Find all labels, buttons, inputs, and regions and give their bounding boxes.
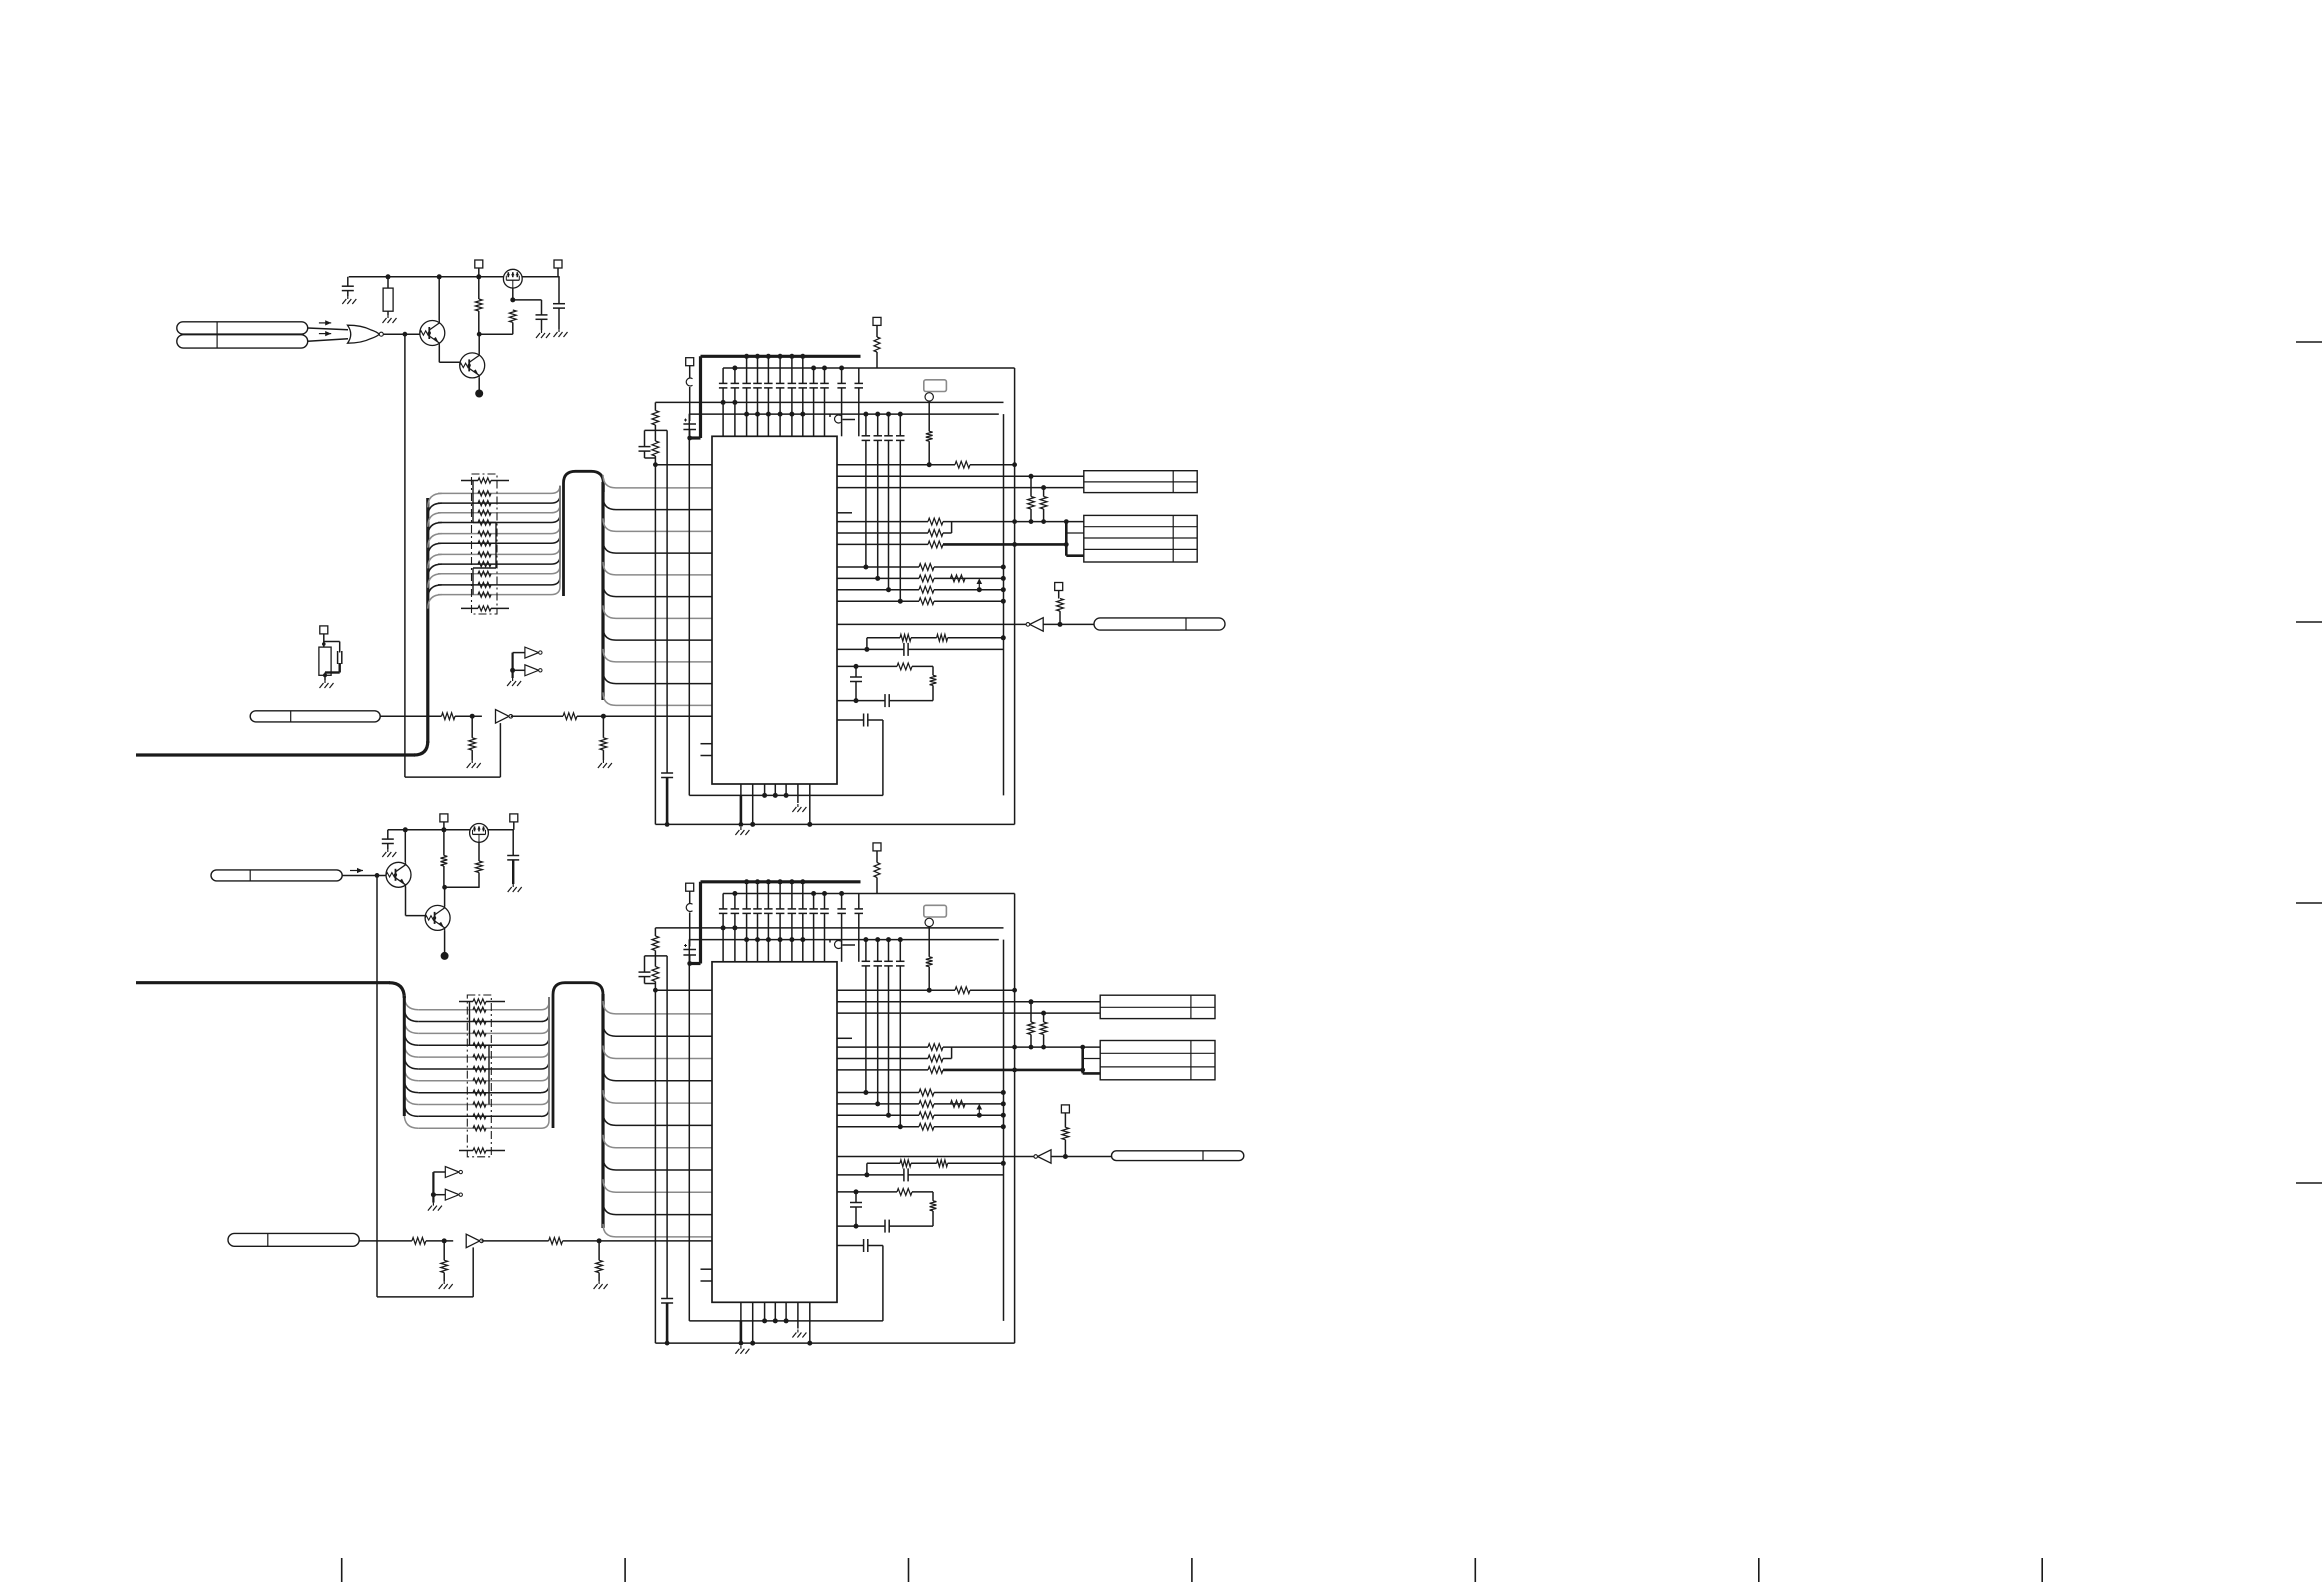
resistor Rr2 B <box>1040 1022 1047 1035</box>
junction B <box>1063 1154 1068 1159</box>
wire A <box>645 457 656 459</box>
wire B <box>513 822 515 830</box>
capacitor Cy A <box>863 714 865 727</box>
wire ground drop thick A <box>740 795 743 824</box>
wire A <box>387 277 389 288</box>
junction A <box>476 274 481 279</box>
resistor array R5 B <box>473 1066 486 1071</box>
junction A <box>601 714 606 719</box>
junction A <box>665 822 670 827</box>
wire B <box>889 1225 933 1227</box>
junction cap1 mid B <box>721 925 726 930</box>
bottom pin A <box>785 784 787 795</box>
page tick bottom 0 <box>341 1558 343 1582</box>
connector CN1a A <box>177 322 308 334</box>
wire A <box>689 366 691 378</box>
wire B <box>1030 1035 1032 1048</box>
power terminal S2 A <box>554 260 562 268</box>
bottom pin A <box>797 784 799 795</box>
wire B <box>934 1114 1003 1116</box>
junction B <box>784 1318 789 1323</box>
resistor array bottom A <box>478 606 491 611</box>
bus wire D5 right A <box>551 486 560 543</box>
wire A <box>339 642 341 653</box>
wire cap1 lead B <box>722 894 724 909</box>
bus corner B <box>389 983 404 998</box>
wire B <box>359 1240 412 1242</box>
bus wire D5 A <box>438 542 551 544</box>
bus wire D2 B <box>418 1032 541 1034</box>
junction B <box>1029 999 1034 1004</box>
wire cap5 lead lower A <box>767 388 769 436</box>
wire cap bank lower B <box>865 966 867 1093</box>
bus wire D2 left A <box>428 513 442 527</box>
bus wire D10 B <box>418 1127 541 1129</box>
wire A <box>387 311 389 315</box>
capacitor Cg A <box>661 772 673 774</box>
bottom pin B <box>774 1302 776 1321</box>
wire B <box>387 830 389 839</box>
wire cap2 lead A <box>734 368 736 383</box>
stub pin A <box>837 512 852 514</box>
wire cap6 lead lower B <box>779 913 781 961</box>
resistor network box A <box>472 474 498 614</box>
wire ground drop thick B <box>740 1321 743 1343</box>
bus bundle merge left B <box>403 996 406 1116</box>
junction cap2 mid A <box>732 400 737 405</box>
decoupling capacitor C2 A <box>731 382 740 384</box>
decoupling capacitor C10 A <box>820 382 829 384</box>
wire bracket thick A <box>1065 522 1068 556</box>
wire thick A <box>666 778 669 825</box>
bus wire D10 A <box>438 594 551 596</box>
resistor Rq3 A <box>919 586 934 593</box>
dual MOSFET U4 B <box>470 824 489 843</box>
polarized capacitor C+ B <box>683 949 696 951</box>
resistor array R8 A <box>478 571 491 576</box>
junction B <box>875 937 880 942</box>
decoupling capacitor C5 B <box>764 908 773 910</box>
resistor Rr1 A <box>1028 497 1035 510</box>
bus wire D8 left A <box>428 574 442 588</box>
bus wire D7 left B <box>404 1079 418 1093</box>
wire B <box>689 955 691 964</box>
capacitor Cw1 B <box>850 1202 862 1204</box>
wire A <box>889 700 933 702</box>
bus wire D2 A <box>438 512 551 514</box>
bottom pin A <box>764 784 766 795</box>
ferrite bead FB3 B <box>835 941 841 949</box>
capacitor Cw2 A <box>884 694 886 707</box>
ground A <box>541 330 543 333</box>
wire cap6 lead B <box>779 882 781 909</box>
bus wire to IC pin 8 A <box>603 649 712 662</box>
wire B <box>654 982 656 991</box>
junction B <box>1001 1161 1006 1166</box>
power terminal P1 A <box>686 358 694 366</box>
wire A <box>478 311 480 334</box>
junction B <box>1001 1113 1006 1118</box>
capacitor Cw1 A <box>850 676 862 678</box>
bus wire D0 B <box>418 1009 541 1011</box>
resistor Rq5 A <box>950 575 965 582</box>
wire B <box>644 956 646 972</box>
bus wire D1 left B <box>404 1008 418 1022</box>
capacitor Cb4 B <box>896 960 905 962</box>
transistor Q2 A <box>460 353 485 378</box>
junction B <box>886 937 891 942</box>
resistor Rt B <box>926 957 933 967</box>
junction B <box>977 1113 982 1118</box>
wire A <box>752 795 754 824</box>
bus wire to IC pin 1 B <box>603 1023 712 1036</box>
bus wire to IC pin 3 A <box>603 540 712 553</box>
bus wire D1 right A <box>551 486 560 503</box>
bus wire to IC pin 7 A <box>603 627 712 640</box>
wire B <box>482 1240 549 1242</box>
resistor Rq2 A <box>919 575 934 582</box>
bus wire D8 B <box>418 1104 541 1106</box>
bus wire to IC pin 0 B <box>603 1001 712 1014</box>
resistor Rw1 A <box>897 663 912 670</box>
resistor array R7 B <box>473 1090 486 1095</box>
wire pin line B <box>837 1069 928 1071</box>
resistor R4 A <box>928 541 943 548</box>
bus wire D9 left A <box>428 585 442 599</box>
wire A <box>511 653 513 678</box>
bus wire to IC pin 3 B <box>603 1068 712 1081</box>
connector CN3 B <box>1100 995 1215 1018</box>
resistor array R10 B <box>473 1126 486 1131</box>
junction A <box>1012 542 1017 547</box>
wire A <box>644 430 646 446</box>
bottom pin B <box>740 1302 742 1321</box>
wire bracket B <box>645 955 668 957</box>
junction B <box>886 1113 891 1118</box>
ground B <box>512 884 514 887</box>
bus wire D2 left B <box>404 1019 418 1033</box>
decoupling capacitor C9 B <box>809 908 818 910</box>
wire A <box>602 716 604 738</box>
resistor Rw2 A <box>930 675 937 685</box>
wire B <box>837 1156 1036 1158</box>
stub pin A <box>701 755 713 757</box>
wire cap11 lead lower B <box>841 913 843 961</box>
bus wire to IC pin 10 B <box>603 1224 712 1237</box>
resistor array R2 A <box>478 510 491 515</box>
wire feedback vertical A <box>404 334 406 777</box>
wire A <box>934 600 1003 602</box>
junction B <box>898 1124 903 1129</box>
wire cap9 lead lower A <box>813 388 815 436</box>
wire cap6 lead A <box>779 356 781 383</box>
junction A <box>1064 542 1069 547</box>
junction A <box>386 274 391 279</box>
junction cap7 top B <box>789 879 794 884</box>
wire cap7 lead lower A <box>791 388 793 436</box>
resistor array R2 B <box>473 1031 486 1036</box>
rail DVDD A <box>689 413 999 415</box>
power terminal S2 B <box>510 814 518 822</box>
junction B <box>854 1224 859 1229</box>
wire cap bank lead A <box>888 414 890 436</box>
wire B <box>443 866 445 887</box>
bus wire D6 B <box>418 1080 541 1082</box>
bus wire D3 B <box>418 1044 541 1046</box>
junction cap5 bottom B <box>766 937 771 942</box>
junction A <box>1001 599 1006 604</box>
wire A <box>471 750 473 760</box>
wire A <box>513 652 525 654</box>
resistor array R9 A <box>478 582 491 587</box>
bus wire D5 left A <box>428 543 442 557</box>
bus wire D5 left B <box>404 1055 418 1069</box>
junction cap8 top A <box>800 354 805 359</box>
wire A <box>868 719 883 721</box>
net node big A <box>475 390 483 398</box>
wire B <box>928 967 930 991</box>
dual MOSFET U2 A <box>503 269 522 288</box>
resistor Rq1 B <box>919 1089 934 1096</box>
wire to IC pin A <box>655 464 712 466</box>
bus wire D8 right B <box>541 997 549 1105</box>
connector CN6 B <box>1100 1041 1215 1080</box>
wire B <box>843 944 856 946</box>
wire B <box>654 956 656 967</box>
wire B <box>934 1126 1003 1128</box>
junction A <box>977 587 982 592</box>
capacitor Cb4 A <box>896 435 905 437</box>
junction B <box>1012 1045 1017 1050</box>
page tick bottom 4 <box>1474 1558 1476 1582</box>
decoupling capacitor C4 B <box>753 908 762 910</box>
bus wire D8 A <box>438 573 551 575</box>
junction A <box>739 822 744 827</box>
bus wire D0 left A <box>428 493 442 507</box>
wire B <box>426 1240 453 1242</box>
bus wire to IC pin 9 B <box>603 1202 712 1215</box>
junction A <box>1001 587 1006 592</box>
capacitor Ca3 A <box>553 303 565 305</box>
bus wire D10 left B <box>404 1114 418 1128</box>
junction A <box>854 664 859 669</box>
junction B <box>1080 1045 1085 1050</box>
bus wire D9 right B <box>541 997 549 1116</box>
page tick right 1 <box>2296 621 2322 623</box>
junction A <box>807 822 812 827</box>
rail VCC A <box>349 276 560 278</box>
wire A <box>1043 623 1094 625</box>
connector CN6 A <box>1084 515 1197 562</box>
resistor Rm (box) A <box>319 647 331 675</box>
wire thick B <box>512 860 514 884</box>
junction cap8 bottom A <box>800 412 805 417</box>
net node big B <box>441 952 449 960</box>
wire cap11 lead A <box>841 368 843 383</box>
connector CN5 B <box>228 1233 359 1246</box>
wire A <box>1030 509 1032 522</box>
bus hump A <box>564 471 604 596</box>
capacitor Cb1 A <box>862 435 871 437</box>
outer box left A-line B <box>654 990 656 1343</box>
junction A <box>1041 485 1046 490</box>
wire cap7 lead lower B <box>791 913 793 961</box>
wire Q1-Q2 A <box>438 346 440 363</box>
wire B <box>512 830 514 856</box>
transistor Q4 B <box>425 905 450 930</box>
wire A <box>558 277 560 304</box>
resistor array R4 A <box>478 531 491 536</box>
resistor array jog A <box>472 481 474 523</box>
wire cap6 lead lower A <box>779 388 781 436</box>
wire pin line B <box>837 1245 864 1247</box>
wire A <box>932 685 934 700</box>
stub pin B <box>837 1037 852 1039</box>
junction cap5 bottom A <box>766 412 771 417</box>
wire pin line B <box>837 1126 919 1128</box>
test point TP A <box>925 393 933 401</box>
junction A <box>322 642 326 646</box>
junction B <box>1001 1124 1006 1129</box>
resistor array jog B <box>469 1002 471 1046</box>
junction cap6 top B <box>778 879 783 884</box>
wire cap bank lead B <box>865 940 867 962</box>
wire Q3-Q4 B <box>405 887 407 916</box>
wire A <box>943 532 952 534</box>
decoupling capacitor C7 B <box>788 908 797 910</box>
wire B <box>387 844 389 850</box>
wire A <box>577 715 712 717</box>
wire A <box>308 328 348 330</box>
wire B <box>876 851 878 863</box>
power terminal S4 B <box>1061 1105 1069 1113</box>
IC U1 B <box>712 962 837 1303</box>
bus wire D9 left B <box>404 1102 418 1116</box>
wire A <box>347 291 349 296</box>
inverter G4 A <box>525 665 539 676</box>
wire B <box>689 891 691 903</box>
bus wire D4 A <box>438 533 551 535</box>
wire pin line A <box>837 719 864 721</box>
bus wire D6 left A <box>428 554 442 568</box>
junction B <box>863 937 868 942</box>
wire Q4 collector B <box>444 887 446 906</box>
junction cap9 top B <box>811 891 816 896</box>
bus wire D10 right A <box>551 486 560 595</box>
wire cap8 lead lower A <box>802 388 804 436</box>
bus wire D7 right A <box>551 486 560 564</box>
signal arrow A <box>319 322 331 324</box>
ferrite bead FB2 B <box>874 863 880 878</box>
wire B <box>1043 1035 1045 1048</box>
capacitor Cn1 B <box>639 971 651 973</box>
resistor R1 B <box>955 987 970 994</box>
wire cap3 lead A <box>746 356 748 383</box>
junction A <box>1001 635 1006 640</box>
resistor Rn1 A <box>652 411 659 426</box>
stub pin A <box>701 743 713 745</box>
capacitor Cs A <box>903 643 905 656</box>
junction B <box>739 1341 744 1346</box>
diode arrow B <box>978 1105 980 1114</box>
inner box bottom B <box>689 1320 883 1322</box>
wire A <box>479 333 513 335</box>
capacitor Ca2 A <box>536 314 548 316</box>
resistor Rb3 A <box>563 713 577 720</box>
junction cap2 top B <box>732 891 737 896</box>
wire Q2 collector A <box>478 334 480 353</box>
wire cap bank lead A <box>865 414 867 436</box>
wire B <box>943 1058 952 1060</box>
junction B <box>442 885 447 890</box>
resistor Rr2 A <box>1040 497 1047 510</box>
decoupling capacitor C8 B <box>799 908 808 910</box>
ground A <box>558 329 560 332</box>
wire cap1 lead A <box>722 368 724 383</box>
bus wire D4 B <box>418 1056 541 1058</box>
resistor array R10 A <box>478 592 491 597</box>
bus wire D9 right A <box>551 486 560 585</box>
junction A <box>886 587 891 592</box>
wire A <box>644 451 646 458</box>
page tick right 0 <box>2296 341 2322 343</box>
wire B <box>654 951 656 956</box>
wire pin line A <box>837 521 928 523</box>
resistor Rq3 B <box>919 1112 934 1119</box>
bus wire to IC pin 5 B <box>603 1112 712 1125</box>
bus wire D0 right B <box>541 997 549 1010</box>
wire cap2 lead lower B <box>734 913 736 961</box>
wire pin line A <box>837 464 955 466</box>
wire A <box>325 671 340 673</box>
wire pin line B <box>837 1058 928 1060</box>
connector CN4 B <box>211 870 342 881</box>
junction A <box>477 332 482 337</box>
wire riser B <box>1043 1013 1045 1022</box>
wire cap bank lower B <box>899 966 901 1127</box>
bus bundle fan riser A <box>601 482 604 700</box>
wire B <box>1051 1156 1112 1158</box>
wire A <box>471 716 473 738</box>
wire cap bank lower B <box>877 966 879 1104</box>
wire B <box>689 913 691 947</box>
junction A <box>1041 519 1046 524</box>
junction B <box>864 1172 869 1177</box>
wire pin line A <box>837 577 919 579</box>
junction cap4 top A <box>755 354 760 359</box>
power terminal S1 B <box>440 814 448 822</box>
decoupling capacitor C1 A <box>719 382 728 384</box>
wire cap4 lead lower A <box>757 388 759 436</box>
wire cap8 lead A <box>802 356 804 383</box>
junction B <box>807 1341 812 1346</box>
wire A <box>324 673 326 681</box>
junction cap6 top A <box>778 354 783 359</box>
wire cap bank lead A <box>899 414 901 436</box>
wire VDD drop A <box>699 356 702 438</box>
junction cap10 top A <box>822 366 827 371</box>
resistor array R1 A <box>478 501 491 506</box>
resistor array bottom B <box>473 1148 486 1153</box>
bus bundle riser A <box>426 498 429 743</box>
wire cap bank lower A <box>865 440 867 567</box>
diode arrow A <box>978 579 980 588</box>
wire pin line A <box>837 589 919 591</box>
wire cap8 lead B <box>802 882 804 909</box>
buffer G8 A <box>1030 618 1044 632</box>
ferrite bead FB1 A <box>686 378 692 386</box>
junction B <box>773 1318 778 1323</box>
